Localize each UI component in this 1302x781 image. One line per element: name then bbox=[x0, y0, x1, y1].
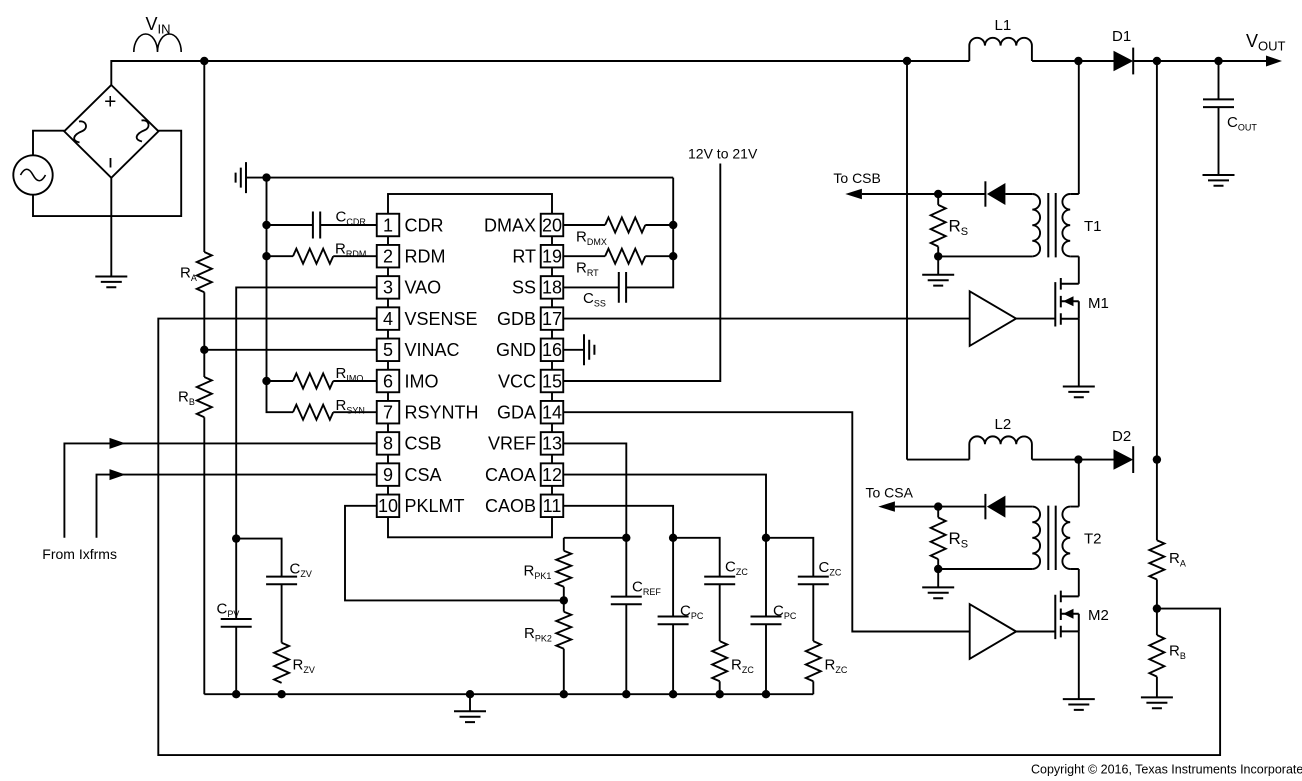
pin 20 name DMAX bbox=[484, 215, 536, 235]
svg-text:DMAX: DMAX bbox=[484, 215, 536, 235]
pin 8 name CSB bbox=[405, 434, 442, 454]
bridge diode squiggle right bbox=[137, 120, 149, 141]
wire CPC2 upper bbox=[765, 538, 767, 617]
wire RRT right bbox=[645, 255, 673, 257]
resistor RA left bbox=[197, 252, 212, 292]
svg-text:VSENSE: VSENSE bbox=[405, 309, 478, 329]
pin 16 number bbox=[542, 340, 562, 360]
wire CAOB bus bbox=[673, 538, 720, 577]
svg-text:11: 11 bbox=[543, 496, 562, 516]
pin 19 box bbox=[541, 245, 564, 268]
node RPK2 bus bbox=[560, 690, 568, 698]
node COUT rail bbox=[1214, 57, 1222, 65]
wire driver2 out bbox=[1016, 631, 1055, 633]
svg-text:T2: T2 bbox=[1084, 531, 1102, 548]
pin 2 number bbox=[383, 247, 393, 267]
pin 15 name VCC bbox=[498, 371, 536, 391]
pin 16 box bbox=[541, 339, 564, 362]
wire VSENSE feedback bbox=[158, 319, 1220, 755]
svg-text:17: 17 bbox=[542, 309, 562, 329]
svg-text:From Ixfrms: From Ixfrms bbox=[42, 546, 117, 562]
node output divider bbox=[1153, 604, 1161, 612]
wire RIMO right bbox=[333, 380, 377, 382]
node VINAC tap bbox=[200, 346, 208, 354]
wire M2 drain bbox=[1078, 569, 1080, 596]
svg-text:M1: M1 bbox=[1088, 295, 1109, 312]
label RDMX bbox=[576, 229, 607, 248]
wire CCDR right bbox=[320, 224, 377, 226]
label RPK2 bbox=[524, 625, 552, 644]
pin 8 number bbox=[383, 434, 393, 454]
pin 9 name CSA bbox=[405, 465, 442, 485]
label VIN bbox=[146, 14, 171, 37]
label copyright bbox=[1031, 763, 1302, 777]
wire RB ground stem bbox=[1156, 677, 1158, 698]
wire RS2 ground stem bbox=[937, 569, 939, 587]
svg-text:CSB: CSB bbox=[405, 434, 442, 454]
label CPC second bbox=[773, 603, 797, 622]
svg-text:D2: D2 bbox=[1112, 428, 1131, 445]
resistor RZC second bbox=[806, 641, 821, 681]
svg-text:16: 16 bbox=[542, 340, 562, 360]
capacitor CZV bbox=[266, 577, 297, 585]
label RPK1 bbox=[524, 563, 552, 582]
node PKLMT divider junction bbox=[560, 596, 568, 604]
svg-text:GDB: GDB bbox=[497, 309, 536, 329]
resistor RRDM bbox=[293, 249, 333, 264]
svg-text:RSYNTH: RSYNTH bbox=[405, 403, 479, 423]
node CPC2 bus bbox=[762, 690, 770, 698]
svg-text:L1: L1 bbox=[995, 17, 1012, 34]
pin 2 box bbox=[377, 245, 400, 268]
capacitor CREF bbox=[611, 597, 642, 605]
wire GDB bbox=[563, 318, 969, 320]
label VOUT bbox=[1246, 31, 1286, 54]
wire CREF lower bbox=[625, 604, 627, 694]
pin 7 box bbox=[377, 401, 400, 424]
pin 3 name VAO bbox=[405, 278, 442, 298]
diode sense second bbox=[985, 494, 1005, 519]
op-amp U1 body outline bbox=[388, 194, 552, 537]
wire CAOB bbox=[563, 506, 673, 538]
wire RS1 ground stem bbox=[937, 256, 939, 274]
resistor RS first bbox=[931, 205, 946, 247]
label CCDR bbox=[336, 209, 367, 228]
node T1 drain rail bbox=[1074, 57, 1082, 65]
wire CSA input bbox=[97, 475, 377, 538]
label RSYN bbox=[336, 397, 365, 416]
svg-text:12V to 21V: 12V to 21V bbox=[688, 146, 758, 162]
arrowhead VOUT bbox=[1266, 56, 1282, 67]
node L2 feed rail bbox=[903, 57, 911, 65]
resistor RRT bbox=[605, 249, 645, 264]
label RRDM bbox=[335, 241, 366, 260]
pin 6 box bbox=[377, 370, 400, 393]
label T1 bbox=[1084, 218, 1102, 235]
wire CSB input bbox=[64, 443, 376, 537]
svg-text:13: 13 bbox=[542, 434, 562, 454]
wire RSYN right bbox=[333, 411, 377, 413]
wire RPK1 lower bbox=[563, 587, 565, 601]
pin 20 number bbox=[542, 215, 562, 235]
pin 17 number bbox=[542, 309, 562, 329]
pin 10 box bbox=[377, 495, 400, 518]
label CREF bbox=[632, 579, 661, 598]
pin 7 name RSYNTH bbox=[405, 403, 479, 423]
wire CPC2 lower bbox=[765, 624, 767, 694]
resistor RPK1 bbox=[556, 551, 571, 587]
wire divider upper bbox=[203, 61, 205, 252]
wire CAOA bbox=[563, 475, 766, 538]
wire gnd bus vertical bbox=[267, 178, 294, 413]
svg-text:To CSA: To CSA bbox=[866, 485, 914, 501]
pin 5 name VINAC bbox=[405, 340, 460, 360]
label 12V to 21V bbox=[688, 146, 758, 162]
svg-text:GDA: GDA bbox=[497, 403, 536, 423]
label RZV bbox=[293, 657, 315, 676]
label RIMO bbox=[336, 365, 364, 384]
wire bottom ground bus bbox=[204, 693, 813, 695]
label RS second bbox=[949, 529, 969, 551]
wire CSS left bbox=[563, 286, 619, 288]
pin 15 box bbox=[541, 370, 564, 393]
bridge diode squiggle left bbox=[74, 121, 86, 142]
wire M1 source bbox=[1078, 319, 1080, 387]
wire CZC1 to RZC1 bbox=[719, 584, 721, 641]
op-amp driver first bbox=[970, 291, 1016, 346]
wire CZV branch bbox=[236, 539, 281, 577]
wire CPC1 lower bbox=[672, 624, 674, 694]
wire CREF upper bbox=[625, 538, 627, 597]
svg-text:5: 5 bbox=[383, 340, 393, 360]
wire RZC2 lower bbox=[812, 681, 814, 694]
resistor RZC first bbox=[712, 641, 727, 681]
label RS first bbox=[949, 217, 969, 239]
wire RIMO left bbox=[267, 380, 294, 382]
wire T1 sec top bbox=[1005, 193, 1032, 195]
pin 13 name VREF bbox=[488, 434, 536, 454]
pin 3 box bbox=[377, 276, 400, 299]
arrowhead To CSB bbox=[845, 189, 862, 199]
wire VINAC bbox=[204, 349, 376, 351]
ground M2 bbox=[1063, 699, 1095, 710]
node CZV branch bbox=[232, 534, 240, 542]
pin 2 name RDM bbox=[405, 247, 446, 267]
capacitor CPV bbox=[221, 619, 252, 627]
wire RDMX right bbox=[645, 224, 673, 226]
label D1 bbox=[1112, 28, 1131, 45]
pin 19 name RT bbox=[512, 247, 536, 267]
label From Ixfrms bbox=[42, 546, 117, 562]
svg-text:18: 18 bbox=[542, 278, 562, 298]
svg-text:IMO: IMO bbox=[405, 371, 439, 391]
pin 9 number bbox=[383, 465, 393, 485]
svg-text:VREF: VREF bbox=[488, 434, 536, 454]
wire output divider vertical bbox=[1156, 61, 1158, 540]
svg-text:CSA: CSA bbox=[405, 465, 442, 485]
svg-text:SS: SS bbox=[512, 278, 536, 298]
pin 17 name GDB bbox=[497, 309, 536, 329]
wire To CSA line bbox=[895, 506, 986, 508]
wire bridge negative to ground bbox=[110, 178, 112, 277]
pin 6 name IMO bbox=[405, 371, 439, 391]
label To CSA bbox=[866, 485, 914, 501]
node CPC1 bus bbox=[669, 690, 677, 698]
wire T1 sec bottom bbox=[938, 255, 1032, 257]
wire CAOA bus bbox=[766, 538, 813, 577]
label T2 bbox=[1084, 531, 1102, 548]
wire gnd bus horizontal bbox=[246, 177, 673, 179]
node D1 cathode rail bbox=[1153, 57, 1161, 65]
wire CZV to RZV bbox=[281, 584, 283, 642]
label RZC first bbox=[731, 657, 754, 676]
svg-text:RT: RT bbox=[512, 247, 536, 267]
svg-text:D1: D1 bbox=[1112, 28, 1131, 45]
pin 10 number bbox=[378, 496, 398, 516]
op-amp driver second bbox=[970, 604, 1016, 659]
arrowhead To CSA bbox=[878, 501, 895, 511]
wire CPV to bus bbox=[235, 627, 237, 695]
wire RRT left bbox=[563, 255, 605, 257]
wire ground tap stem bbox=[469, 694, 471, 711]
transistor M1 bbox=[1055, 278, 1079, 327]
svg-text:To CSB: To CSB bbox=[833, 170, 880, 186]
wire L2 row bbox=[907, 459, 969, 461]
wire RA to node bbox=[1156, 580, 1158, 609]
label M1 bbox=[1088, 295, 1109, 312]
label RRT bbox=[576, 260, 599, 279]
wire RPK2 upper bbox=[563, 600, 565, 611]
node CCDR tap bbox=[262, 221, 270, 229]
resistor RPK2 bbox=[556, 612, 571, 649]
wire CZC2 to RZC2 bbox=[812, 584, 814, 641]
wire VAO bbox=[236, 287, 377, 538]
node CAOA junction bbox=[762, 534, 770, 542]
pin 6 number bbox=[383, 371, 393, 391]
label RB right bbox=[1169, 643, 1186, 662]
node D2 cathode bbox=[1153, 455, 1161, 463]
svg-text:CAOA: CAOA bbox=[485, 465, 536, 485]
wire RA to VINAC node bbox=[203, 292, 205, 377]
svg-text:VCC: VCC bbox=[498, 371, 536, 391]
pin 16 name GND bbox=[496, 340, 536, 360]
node VREF-CREF junction bbox=[622, 534, 630, 542]
wire CSS right to gnd bus bbox=[626, 178, 673, 288]
svg-text:10: 10 bbox=[378, 496, 398, 516]
label CZC second bbox=[819, 559, 842, 578]
pin 4 box bbox=[377, 307, 400, 330]
pin 7 number bbox=[383, 403, 393, 423]
label COUT bbox=[1227, 114, 1257, 133]
pin 11 name CAOB bbox=[485, 496, 536, 516]
svg-text:2: 2 bbox=[383, 247, 393, 267]
wire To CSB line bbox=[862, 193, 986, 195]
pin 18 box bbox=[541, 276, 564, 299]
wire VREF bbox=[563, 443, 626, 537]
capacitor CSS bbox=[619, 272, 626, 303]
label CPC first bbox=[680, 603, 704, 622]
pin 13 number bbox=[542, 434, 562, 454]
node CAOB junction bbox=[669, 534, 677, 542]
pin 18 number bbox=[542, 278, 562, 298]
wire driver1 out bbox=[1016, 318, 1055, 320]
wire CPC1 upper bbox=[672, 538, 674, 617]
wire ac to bridge right bbox=[33, 131, 181, 216]
label CZV bbox=[290, 561, 312, 580]
svg-text:15: 15 bbox=[542, 371, 562, 391]
ground RS first bbox=[922, 275, 954, 286]
pin 12 box bbox=[541, 463, 564, 486]
bridge plus mark bbox=[104, 91, 116, 114]
svg-text:+: + bbox=[104, 91, 116, 114]
svg-text:19: 19 bbox=[542, 247, 562, 267]
node CREF bus bbox=[622, 690, 630, 698]
pin 5 number bbox=[383, 340, 393, 360]
capacitor CZC first bbox=[704, 577, 735, 585]
svg-text:T1: T1 bbox=[1084, 218, 1102, 235]
svg-text:VINAC: VINAC bbox=[405, 340, 460, 360]
wire RB upper bbox=[1156, 609, 1158, 635]
wire GDA bbox=[563, 412, 969, 631]
wire T2 sec top bbox=[1005, 506, 1032, 508]
capacitor COUT bbox=[1203, 99, 1234, 107]
wire RDMX left bbox=[563, 224, 605, 226]
transformer T1 bbox=[1032, 193, 1079, 257]
resistor RB left bbox=[197, 377, 212, 417]
pin 19 number bbox=[542, 247, 562, 267]
node RS1 top bbox=[934, 190, 942, 198]
wire ac to bridge left bbox=[33, 131, 64, 156]
bridge minus mark bbox=[110, 158, 112, 168]
node RZC1 bus bbox=[716, 690, 724, 698]
inductor L1 bbox=[969, 38, 1032, 61]
node RDMX bus bbox=[669, 221, 677, 229]
wire RZC1 lower bbox=[719, 681, 721, 694]
pin 8 box bbox=[377, 432, 400, 455]
pin 17 box bbox=[541, 307, 564, 330]
pin 12 number bbox=[542, 465, 562, 485]
node RS2 bottom bbox=[934, 565, 942, 573]
wire PKLMT bbox=[345, 506, 564, 601]
node T2 drain bbox=[1074, 455, 1082, 463]
pin 20 box bbox=[541, 214, 564, 237]
wire L2 to D2 bbox=[1032, 459, 1113, 461]
wire RS2 stubs bbox=[937, 507, 939, 569]
label CPV bbox=[217, 601, 240, 620]
wire GND pin stub bbox=[563, 349, 584, 351]
wire COUT upper bbox=[1218, 61, 1220, 99]
wire RRDM right bbox=[333, 255, 377, 257]
label M2 bbox=[1088, 607, 1109, 624]
arrowhead CSB input bbox=[110, 438, 126, 449]
node RRT bus bbox=[669, 252, 677, 260]
label RA left bbox=[180, 265, 197, 284]
resistor RB right bbox=[1149, 635, 1164, 677]
wire COUT lower bbox=[1218, 107, 1220, 175]
ground RB right bbox=[1141, 697, 1173, 708]
svg-text:Copyright © 2016, Texas Instru: Copyright © 2016, Texas Instruments Inco… bbox=[1031, 763, 1302, 777]
svg-text:CDR: CDR bbox=[405, 215, 444, 235]
pin 1 box bbox=[377, 214, 400, 237]
pin 4 name VSENSE bbox=[405, 309, 478, 329]
node RZV bus bbox=[277, 690, 285, 698]
node CPV bus bbox=[232, 690, 240, 698]
resistor RDMX bbox=[605, 218, 645, 233]
svg-text:M2: M2 bbox=[1088, 607, 1109, 624]
wire VREF bus bbox=[564, 537, 627, 539]
pin 11 box bbox=[541, 495, 564, 518]
svg-text:14: 14 bbox=[542, 403, 562, 423]
pin 1 number bbox=[383, 215, 393, 235]
ground RS second bbox=[922, 587, 954, 598]
label CSS bbox=[583, 290, 606, 309]
resistor RS second bbox=[931, 518, 946, 560]
ground bottom bus bbox=[454, 711, 486, 722]
wire RPK1 upper bbox=[563, 538, 565, 551]
svg-text:GND: GND bbox=[496, 340, 536, 360]
node gnd bus tap bbox=[262, 173, 270, 181]
label L1 bbox=[995, 17, 1012, 34]
pin 14 box bbox=[541, 401, 564, 424]
ground COUT bbox=[1203, 175, 1235, 186]
pin 5 box bbox=[377, 339, 400, 362]
pin 13 box bbox=[541, 432, 564, 455]
resistor RA right bbox=[1149, 540, 1164, 579]
node RS2 top bbox=[934, 502, 942, 510]
svg-text:6: 6 bbox=[383, 371, 393, 391]
wire CPV branch upper bbox=[235, 539, 237, 619]
pin 11 number bbox=[543, 496, 562, 516]
transistor M2 bbox=[1055, 591, 1079, 640]
svg-text:8: 8 bbox=[383, 434, 393, 454]
label CZC first bbox=[725, 559, 748, 578]
arrowhead CSA input bbox=[110, 469, 126, 480]
wire RRDM left bbox=[267, 255, 294, 257]
wire T2 primary top bbox=[1078, 460, 1080, 507]
wire VCC supply bbox=[563, 164, 720, 382]
inductor L2 bbox=[969, 436, 1032, 459]
svg-text:7: 7 bbox=[383, 403, 393, 423]
capacitor CPC first bbox=[658, 617, 689, 625]
label RA right bbox=[1169, 550, 1186, 569]
node RRDM tap bbox=[262, 252, 270, 260]
label D2 bbox=[1112, 428, 1131, 445]
resistor RZV bbox=[274, 643, 289, 683]
capacitor CCDR bbox=[313, 212, 320, 239]
node RS1 bottom bbox=[934, 252, 942, 260]
ground pin16 bbox=[584, 334, 594, 365]
pin 15 number bbox=[542, 371, 562, 391]
wire M1 drain bbox=[1078, 256, 1080, 283]
svg-text:L2: L2 bbox=[995, 416, 1012, 433]
svg-text:9: 9 bbox=[383, 465, 393, 485]
haversine VIN waveform symbol bbox=[134, 34, 181, 52]
resistor RSYN bbox=[293, 405, 333, 420]
label RB left bbox=[178, 389, 195, 408]
bridge rectifier diamond bbox=[64, 85, 158, 178]
label RZC second bbox=[825, 657, 848, 676]
wire CCDR left bbox=[267, 224, 313, 226]
ground M1 bbox=[1063, 387, 1095, 398]
label L2 bbox=[995, 416, 1012, 433]
svg-text:12: 12 bbox=[542, 465, 562, 485]
svg-text:PKLMT: PKLMT bbox=[405, 496, 465, 516]
wire VIN top rail bbox=[111, 61, 1279, 85]
node RIMO tap bbox=[262, 377, 270, 385]
pin 12 name CAOA bbox=[485, 465, 536, 485]
pin 1 name CDR bbox=[405, 215, 444, 235]
diode sense first bbox=[985, 181, 1005, 206]
